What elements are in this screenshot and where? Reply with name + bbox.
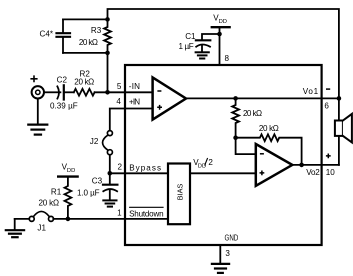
wire Vo1 rail pin 6: [186, 97, 339, 99]
speaker: [335, 98, 352, 142]
svg-text:C2: C2: [57, 75, 68, 84]
svg-text:GND: GND: [225, 233, 239, 242]
wire jack to C2: [44, 91, 58, 93]
ground C1: [196, 52, 209, 58]
svg-text:0.39 µF: 0.39 µF: [50, 101, 78, 110]
wire C4 top link: [63, 18, 108, 20]
svg-text:Vo2: Vo2: [306, 168, 320, 177]
svg-text:20 kΩ: 20 kΩ: [259, 124, 279, 133]
svg-text:20 kΩ: 20 kΩ: [79, 38, 98, 47]
wire GND pin 3 stub: [219, 246, 221, 263]
svg-text:R3: R3: [91, 26, 102, 35]
wire bypass pin 2: [110, 172, 168, 174]
power VDD bar at R1: [58, 175, 77, 177]
svg-text:20 kΩ: 20 kΩ: [74, 78, 94, 87]
wire node column to -IN: [107, 53, 109, 92]
svg-text:1.0 µF: 1.0 µF: [77, 188, 100, 197]
svg-text:DD: DD: [219, 19, 227, 25]
svg-text:DD: DD: [67, 168, 75, 174]
svg-text:2: 2: [118, 163, 123, 172]
op-amp polarity marks: [157, 91, 264, 175]
op-amp U1B: [256, 144, 292, 186]
jumper J1: [29, 211, 53, 221]
op-amp U1A: [153, 77, 186, 119]
wire J1 to shutdown pin: [53, 218, 168, 220]
svg-text:3: 3: [225, 249, 230, 258]
power VDD top bar: [212, 26, 230, 28]
wire op2 inverting input: [236, 138, 256, 154]
capacitor C3: [103, 173, 117, 200]
ground pin 3: [212, 264, 229, 273]
wire speaker bottom leg: [338, 136, 340, 165]
svg-text:+IN: +IN: [129, 98, 140, 107]
IC package outline: [125, 65, 322, 245]
svg-text:6: 6: [324, 101, 329, 110]
svg-text:4: 4: [116, 97, 121, 106]
resistor 20k vertical: [232, 98, 239, 137]
svg-text:8: 8: [225, 54, 230, 63]
BIAS block: [168, 164, 190, 225]
ground jack: [28, 99, 47, 135]
wire +IN pin 4: [110, 109, 153, 131]
resistor R2: [74, 89, 95, 96]
resistor R1: [65, 178, 72, 219]
ground J1: [6, 219, 24, 237]
wire VDD/2 to op2 +: [190, 172, 256, 174]
label VDD/2 slash: [205, 158, 208, 166]
svg-text:Bypass: Bypass: [129, 164, 161, 173]
wire J2 to bypass node: [109, 155, 111, 173]
wire C4 bottom link: [63, 52, 108, 54]
svg-text:20 kΩ: 20 kΩ: [243, 109, 262, 118]
node dots: [66, 17, 342, 221]
resistor 20k feedback horizontal: [236, 134, 302, 165]
svg-text:C1: C1: [185, 32, 196, 41]
wire VDD to pin 8: [219, 28, 221, 65]
svg-text:J1: J1: [37, 223, 46, 232]
svg-text:C3: C3: [92, 177, 103, 186]
svg-text:Shutdown: Shutdown: [129, 210, 164, 219]
wire feedback top rail: [108, 9, 339, 98]
svg-text:C4*: C4*: [40, 30, 54, 39]
svg-text:J2: J2: [90, 137, 99, 146]
svg-text:20 kΩ: 20 kΩ: [39, 198, 60, 207]
wire -IN pin 5: [95, 91, 153, 93]
input plus mark: [30, 75, 37, 82]
capacitor C2: [57, 85, 63, 99]
wire shutdown rail pin 1: [15, 218, 30, 220]
capacitor C4: [57, 19, 71, 53]
svg-text:BIAS: BIAS: [175, 184, 184, 201]
Shutdown overline: [129, 206, 164, 208]
svg-text:-IN: -IN: [129, 82, 140, 91]
svg-text:1 µF: 1 µF: [179, 42, 194, 51]
ground C3: [103, 200, 116, 206]
wire C2 to R2: [65, 91, 74, 93]
svg-text:2: 2: [208, 158, 213, 167]
input jack J: [32, 86, 44, 98]
svg-text:R1: R1: [51, 188, 62, 197]
speaker polarity marks: [326, 89, 331, 158]
wire VDD node to C1: [202, 34, 220, 39]
jumper J2: [103, 131, 113, 155]
svg-text:5: 5: [117, 82, 122, 91]
svg-text:10: 10: [326, 168, 336, 177]
resistor R3: [104, 19, 111, 53]
wire op2 output pin 10: [292, 164, 339, 166]
capacitor C1: [196, 40, 210, 52]
svg-text:1: 1: [117, 208, 122, 217]
svg-text:Vo1: Vo1: [303, 87, 319, 96]
